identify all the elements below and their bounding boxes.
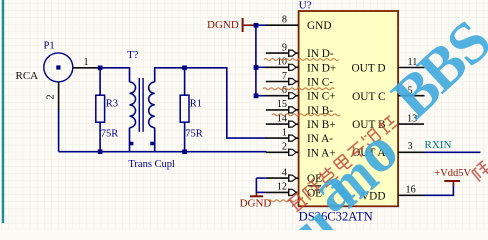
pin 7 lead — [266, 81, 289, 83]
svg-text:8: 8 — [282, 14, 287, 25]
pin 12 input triangle — [289, 189, 297, 195]
pin 16 lead — [398, 194, 424, 196]
svg-text:12: 12 — [277, 182, 287, 193]
pin 9 lead — [266, 52, 289, 54]
svg-text:DGND: DGND — [240, 197, 272, 209]
pin 7 input triangle — [289, 79, 297, 85]
pin 1 input triangle — [289, 135, 297, 141]
transformer polarity dot right — [150, 142, 154, 146]
pin 3 lead — [398, 151, 424, 153]
transformer secondary top stub — [154, 67, 156, 82]
pin 5 lead — [398, 95, 424, 97]
svg-text:4: 4 — [282, 167, 287, 178]
power port DGND top wire — [243, 24, 256, 26]
pin 15 input triangle — [289, 107, 297, 113]
svg-text:RCA: RCA — [16, 70, 39, 82]
watermark red char 3 — [333, 154, 352, 173]
pin 2 lead — [266, 151, 289, 153]
wire to pin 1 — [226, 137, 267, 139]
svg-text:RXIN: RXIN — [425, 139, 452, 151]
pin 4 input triangle — [289, 175, 297, 181]
svg-text:IN D+: IN D+ — [307, 62, 336, 74]
svg-text:Trans Cupl: Trans Cupl — [128, 159, 175, 170]
transformer core line 1 — [138, 78, 140, 132]
pin 14 lead — [266, 123, 289, 125]
transformer primary bottom stub — [129, 128, 131, 152]
power port +Vdd5V bar — [444, 180, 460, 182]
wire secondary top rail — [155, 67, 227, 69]
svg-text:2: 2 — [282, 142, 287, 153]
svg-text:9: 9 — [282, 42, 287, 53]
svg-text:U?: U? — [299, 0, 312, 12]
svg-text:IN B+: IN B+ — [307, 119, 336, 131]
svg-text:IN C+: IN C+ — [307, 91, 336, 103]
svg-text:15: 15 — [277, 99, 287, 110]
svg-text:DGND: DGND — [207, 19, 239, 31]
wire pin12 to stem — [256, 191, 265, 193]
connector P1 center dot — [56, 65, 60, 69]
pin 15 lead — [266, 109, 289, 111]
transformer core line 2 — [142, 78, 144, 132]
resistor R3 body — [96, 95, 105, 122]
pin 9 input triangle — [289, 50, 297, 56]
wire RXIN — [424, 151, 480, 153]
resistor R1 top lead — [184, 68, 186, 95]
pin 11 lead — [398, 67, 424, 69]
pin 13 lead — [398, 123, 424, 125]
wire bus to pin 10 — [256, 66, 267, 68]
junction at R1 bottom — [182, 149, 187, 154]
svg-text:GND: GND — [307, 20, 331, 32]
IC U? body DS26C32ATN — [299, 11, 399, 206]
wire DGND bus vertical — [255, 25, 257, 96]
power port DGND top bar — [242, 18, 244, 32]
pin 10 lead — [266, 66, 289, 68]
svg-text:OUT D: OUT D — [352, 62, 386, 74]
transformer secondary winding — [149, 82, 155, 128]
wire P1 pin2 down — [58, 81, 60, 110]
power port +Vdd5V stem — [452, 181, 454, 186]
power port DGND bottom stem — [255, 193, 257, 196]
wire bottom rail to pin 2 — [59, 151, 267, 153]
svg-text:P1: P1 — [44, 41, 55, 52]
power port DGND bottom bar — [250, 195, 263, 197]
pin 6 lead — [266, 95, 289, 97]
svg-text:R1: R1 — [190, 99, 202, 110]
pin 4 lead — [266, 177, 289, 179]
svg-text:75R: 75R — [185, 129, 203, 140]
pin 12 lead — [266, 191, 289, 193]
watermark teal letter m — [313, 141, 390, 221]
resistor R1 body — [180, 95, 189, 122]
junction at R3 top node — [98, 66, 103, 71]
watermark red squiggle 1 — [264, 59, 339, 61]
svg-text:T?: T? — [127, 50, 138, 61]
svg-text:IN C-: IN C- — [307, 77, 333, 89]
transformer secondary bottom stub — [154, 128, 156, 152]
svg-text:6: 6 — [282, 85, 287, 96]
pin 10 input triangle — [289, 64, 297, 70]
transformer polarity dot left — [130, 142, 134, 146]
transformer primary top stub — [129, 67, 131, 82]
resistor R1 bottom lead — [184, 122, 186, 152]
wire DGND to pin 8 — [256, 24, 267, 26]
sheet border (teal) — [2, 0, 4, 223]
wire pin16 to +Vdd5V — [424, 183, 453, 195]
svg-text:3: 3 — [408, 141, 413, 152]
junction bus at pin 10 — [254, 65, 259, 70]
watermark red char 4 — [346, 141, 368, 162]
wire P1 pin1 to node — [72, 67, 100, 69]
pin 2 input triangle — [289, 149, 297, 155]
resistor R3 bottom lead — [99, 122, 101, 152]
svg-text:75R: 75R — [101, 129, 119, 140]
svg-text:7: 7 — [282, 71, 287, 82]
svg-text:1: 1 — [84, 57, 89, 68]
pin 1 lead — [266, 137, 289, 139]
watermark red squiggle 2 — [263, 88, 334, 90]
junction bus at pin 6 — [254, 93, 259, 98]
watermark red char right edge — [471, 161, 488, 182]
junction at R1 top — [182, 66, 187, 71]
watermark red squiggle 4 — [268, 200, 299, 202]
junction at R3 bottom — [98, 149, 103, 154]
wire DGND stem vertical — [255, 178, 257, 193]
pin 8 lead — [266, 24, 299, 26]
pin 14 input triangle — [289, 121, 297, 127]
wire bus to pin 6 — [256, 95, 267, 97]
svg-text:OUT C: OUT C — [352, 91, 385, 103]
watermark red char 1 — [302, 179, 324, 200]
resistor R3 top lead — [99, 68, 101, 95]
watermark red squiggle 3 — [272, 114, 340, 116]
transformer primary winding — [130, 82, 136, 128]
watermark red char 2 — [316, 165, 339, 187]
svg-text:16: 16 — [406, 185, 416, 196]
OE overline — [308, 185, 322, 187]
watermark red char 6 — [377, 114, 398, 135]
pin 6 input triangle — [289, 93, 297, 99]
junction at DGND bus top — [254, 23, 259, 28]
wire IN A- vertical — [226, 67, 228, 138]
wire pin4 to DGND stem — [256, 177, 265, 179]
watermark red char 5 — [361, 128, 381, 148]
svg-text:1: 1 — [282, 127, 287, 138]
svg-text:IN A-: IN A- — [307, 133, 333, 145]
svg-text:+Vdd5V: +Vdd5V — [434, 168, 471, 179]
svg-text:2: 2 — [46, 94, 57, 99]
watermark red char 0 (partial) — [288, 192, 308, 212]
connector P1 (RCA jack circle) — [44, 53, 73, 82]
svg-text:R3: R3 — [106, 99, 118, 110]
